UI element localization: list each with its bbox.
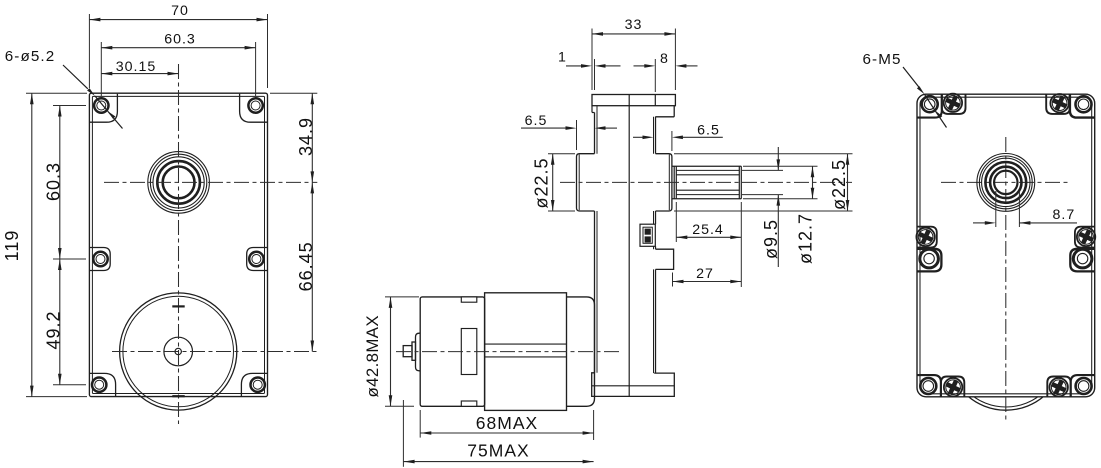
- svg-text:1: 1: [558, 50, 567, 66]
- rear view: top-right corner tab: [1070, 94, 1095, 117]
- rear view: middle-left phillips tab: [917, 227, 937, 248]
- left view: bottom-right screw tab: [241, 373, 267, 396]
- side view motor: rear brush cap: [416, 333, 421, 371]
- svg-text:70: 70: [171, 3, 189, 19]
- rear view: bottom-right corner M5 tapped hole: [1076, 378, 1092, 394]
- left view: shaft horizontal centerline: [104, 181, 317, 183]
- side view motor: can body: [485, 293, 567, 411]
- left view dim 119: extension lines: [26, 92, 87, 94]
- left view: motor silhouette circle (behind gearbox): [120, 293, 237, 410]
- side view motor: front end cap: [567, 297, 595, 406]
- left view: top-right screw hole o5.2: [248, 98, 262, 112]
- svg-text:ø22.5: ø22.5: [532, 157, 552, 208]
- svg-text:ø22.5: ø22.5: [829, 159, 849, 210]
- side view dim 6.5 right: extension line: [671, 131, 673, 151]
- rear view: motor arc visible below housing: [947, 293, 1064, 410]
- side view: flange inner division lines: [629, 95, 655, 106]
- left view dim 34.9: [311, 93, 313, 182]
- left view: bottom-right screw hole o5.2: [251, 378, 265, 392]
- side view: rear boss o22.5: [577, 154, 595, 211]
- rear view: top-left corner M5 tapped hole: [922, 96, 938, 112]
- side view motor: can seam lines: [485, 344, 567, 357]
- side view: gearbox right face (double line): [654, 117, 656, 373]
- side view: output shaft collar: [674, 166, 676, 199]
- rear view dim 8.7: extension lines: [995, 191, 997, 227]
- left view: output shaft bore concentric circles: [148, 152, 210, 214]
- side view motor: centerline: [396, 351, 620, 353]
- side view motor: top vent notch: [461, 297, 477, 302]
- side view motor: rear housing: [420, 297, 484, 406]
- rear view: top-left corner tab: [917, 94, 942, 117]
- rear view: bottom-right corner tab: [1071, 375, 1095, 397]
- rear view: top-left phillips tab: [942, 94, 966, 114]
- rear view: middle-left M5 tapped hole: [920, 249, 939, 268]
- rear view: top-left phillips screw: [944, 94, 962, 112]
- side view dim o42.8MAX: [390, 297, 392, 406]
- left view: centerline tick above motor circle: [172, 305, 184, 307]
- rear view: bottom-left corner tab: [917, 375, 941, 397]
- side view: output shaft o12.7 outline: [672, 166, 741, 199]
- left view dim 60.3 vertical: [59, 106, 61, 260]
- left view: top-left screw tab: [89, 94, 117, 122]
- side view dim o22.5 left: extension lines: [548, 153, 575, 155]
- svg-text:60.3: 60.3: [43, 162, 63, 201]
- svg-text:30.15: 30.15: [116, 59, 157, 75]
- rear view: shaft horizontal centerline: [941, 181, 1070, 183]
- rear view: top-right phillips tab: [1046, 94, 1070, 114]
- side view dim o12.7: [812, 166, 814, 199]
- side view dim 1: [558, 50, 620, 68]
- left view: centerline tick below motor circle: [172, 395, 184, 397]
- left view dim 60.3 horizontal: [101, 47, 255, 49]
- side view: bottom mounting foot: [592, 373, 675, 397]
- left view: bottom-left screw tab: [89, 373, 115, 396]
- left view: gearbox front face outline (outer): [89, 93, 267, 396]
- svg-text:6-ø5.2: 6-ø5.2: [5, 48, 56, 65]
- side view: half-joint vertical line: [628, 106, 630, 397]
- svg-text:8: 8: [660, 51, 669, 67]
- rear view: middle-left tab: [917, 249, 941, 272]
- side view dim o9.5: extension lines: [742, 169, 783, 171]
- svg-text:6-M5: 6-M5: [862, 51, 901, 68]
- left view dim 60.3 vertical: extension lines: [53, 105, 86, 107]
- svg-text:ø42.8MAX: ø42.8MAX: [363, 315, 382, 397]
- side view dim 68MAX: extension lines: [419, 410, 421, 438]
- svg-text:49.2: 49.2: [43, 310, 63, 349]
- side view: right-side ledge step: [656, 249, 674, 269]
- svg-text:119: 119: [2, 230, 22, 262]
- side view dim 75MAX: [404, 461, 594, 463]
- side view dim 25.4: [676, 236, 741, 238]
- svg-text:ø9.5: ø9.5: [761, 219, 781, 259]
- side view dim o22.5 left: [552, 154, 554, 211]
- side view motor: bottom vent notch: [461, 401, 477, 406]
- left view: top-right screw tab: [240, 94, 268, 122]
- left view: vertical centerline: [178, 64, 180, 424]
- side view: motor terminal block: [640, 224, 655, 246]
- rear view dim 8.7: [973, 207, 1077, 225]
- side view dim 68MAX: [420, 432, 593, 434]
- svg-text:8.7: 8.7: [1053, 207, 1076, 223]
- rear view: gearbox outline (outer): [917, 94, 1095, 397]
- left view: middle-right screw tab: [247, 248, 268, 271]
- left view dim 70: [89, 19, 267, 21]
- rear view: middle-right phillips tab: [1075, 227, 1095, 248]
- svg-text:60.3: 60.3: [164, 31, 196, 47]
- rear view: vertical centerline: [1005, 137, 1007, 421]
- svg-text:25.4: 25.4: [692, 222, 724, 238]
- side view motor: rear shaft stub: [403, 342, 415, 360]
- rear view: middle-right phillips screw: [1077, 228, 1095, 246]
- left view dim 60.3 horizontal: extension lines: [100, 42, 102, 96]
- side view dim 25.4: extension lines: [675, 202, 677, 242]
- side view: shaft spline lines: [676, 170, 739, 194]
- svg-text:27: 27: [696, 266, 714, 282]
- svg-text:33: 33: [625, 17, 643, 33]
- side view dim o22.5 right: [847, 154, 849, 211]
- rear view: bottom-left corner M5 tapped hole: [920, 378, 936, 394]
- rear view: shaft bore concentric circles: [977, 154, 1035, 212]
- rear view: middle-left phillips screw: [916, 228, 934, 246]
- side view dim 27: extension line: [672, 273, 674, 287]
- side view dim 1: extension line: [594, 59, 596, 90]
- svg-text:6.5: 6.5: [697, 122, 720, 138]
- rear view: top-right phillips screw: [1050, 94, 1068, 112]
- side view motor: center vent slot: [461, 329, 477, 375]
- svg-text:6.5: 6.5: [525, 113, 548, 129]
- side view dim o9.5: [761, 147, 781, 267]
- left view: motor horizontal centerline: [112, 351, 317, 353]
- side view: gearbox left face (double line): [592, 106, 597, 373]
- rear view: bottom-left phillips screw: [944, 378, 962, 396]
- rear view: bottom-right phillips screw: [1050, 378, 1068, 396]
- left view dim 66.45: [311, 182, 313, 351]
- left view: bottom-left screw hole o5.2: [92, 378, 106, 392]
- rear view: top-right corner M5 tapped hole: [1076, 96, 1092, 112]
- left view dim 30.15: [101, 73, 178, 75]
- side view dim 6.5 left: [521, 113, 617, 130]
- side view: rear screw boss (8mm) below flange: [655, 106, 674, 117]
- side view dim o42.8MAX: extension lines: [385, 296, 419, 298]
- svg-text:66.45: 66.45: [296, 241, 316, 291]
- svg-text:34.9: 34.9: [296, 117, 316, 156]
- side view dim 33: extension lines: [591, 29, 593, 91]
- side view dim 6.5 right: [633, 122, 723, 139]
- rear view: middle-right tab: [1070, 249, 1094, 272]
- side view: gearbox top mounting flange: [592, 95, 675, 106]
- rear view: gearbox outline (inner): [920, 97, 1092, 394]
- svg-text:68MAX: 68MAX: [476, 413, 538, 433]
- rear view: bottom-left phillips tab: [941, 377, 964, 397]
- svg-text:ø12.7: ø12.7: [796, 213, 816, 264]
- left view dim 119: [31, 93, 33, 396]
- rear view: middle-right M5 tapped hole: [1073, 249, 1092, 268]
- side view dim o12.7: extension lines: [743, 165, 818, 167]
- side view dim 75MAX: extension lines: [402, 400, 404, 467]
- left view label 6-o5.2 leader line: [63, 65, 123, 129]
- svg-text:75MAX: 75MAX: [467, 441, 529, 461]
- side view dim 33: [592, 33, 675, 35]
- left view: gearbox front face outline (inner): [92, 96, 264, 393]
- rear view label 6-M5 leader line: [903, 67, 947, 128]
- left view: middle-right screw hole o5.2: [249, 252, 263, 266]
- side view: shaft centerline: [560, 181, 852, 183]
- side view dim o22.5 right: extension lines: [674, 153, 853, 155]
- side view dim 8: [634, 51, 698, 68]
- rear view: bottom-right phillips tab: [1047, 377, 1070, 397]
- left view dim 70: extension lines: [88, 14, 90, 88]
- left view: middle-left screw hole o5.2: [93, 252, 107, 266]
- side view dim 8: extension line: [654, 59, 656, 92]
- left view dim 49.2: [59, 259, 61, 385]
- side view dim 27: [673, 281, 742, 283]
- left view: middle-left screw tab: [89, 248, 110, 271]
- left view dim 34.9: extension line: [270, 92, 317, 94]
- side view: front output boss o22.5: [656, 154, 672, 211]
- left view: top-left screw hole o5.2: [94, 98, 108, 112]
- side view dim 6.5 left: extension line: [576, 120, 578, 150]
